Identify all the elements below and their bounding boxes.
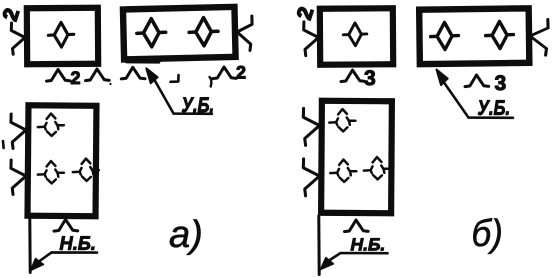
speck [109,83,111,85]
callout arrow to wire (Н.Б.) [321,253,388,270]
fork connector on left of box A1 [11,23,25,54]
callout arrow to box B2 (У.Б.) [437,70,514,118]
dashed diamond top in box A3 [38,114,64,136]
diamond symbol 1 in box A2 [137,19,166,47]
label 2 under box A2 right [237,66,246,79]
smudge comma [210,77,212,87]
box B2 [419,8,529,64]
wire down from box A3 [28,218,31,273]
dashed diamond middle-right in box B3 [364,157,390,179]
fork connector lower on left of box A3 [11,160,26,194]
legs symbol under box A2 left [121,67,145,79]
diamond symbol 2 in box B2 [486,21,514,48]
label 2 under box A1 [71,71,80,84]
fork connector lower on left of box B3 [303,159,319,196]
fork connector upper on left of box A3 [11,114,26,148]
pin count 2 (rotated) at fork A1 [2,7,19,21]
diamond symbol 2 in box A2 [189,18,218,46]
diamond symbol in box B1 [343,23,366,46]
smudge mark [171,75,179,82]
legs symbol left under box A1 [47,70,71,82]
legs symbol under box A2 right [213,67,237,79]
fork connector upper on left of box B3 [303,108,319,145]
legs symbol under box B3 [345,220,369,232]
pin count 2 (rotated) at fork B1 [296,6,313,20]
dashed diamond middle-left in box B3 [330,160,356,182]
label 3 under box B1 [364,70,374,85]
callout arrow to box A2 (У.Б.) [146,68,212,114]
fork connector on right of box A2 [237,16,252,50]
label Н.Б. for box B3 [351,238,384,250]
box A1 [27,8,98,64]
legs symbol under box A3 [54,220,78,232]
diamond symbol in box A1 [48,22,73,47]
dashed diamond middle-left in box A3 [38,161,64,183]
wire down from box B3 [317,216,320,275]
box A2 [123,7,236,63]
label У.Б. for box A2 [182,98,213,113]
variant label б) [473,218,500,254]
legs symbol right under box A1 [86,69,110,81]
dashed diamond middle-right in box A3 [73,159,99,181]
box A3 [28,105,97,216]
callout arrow to wire (Н.Б.) [31,252,98,270]
label У.Б. for box B2 [478,100,509,115]
fork connector on left of box B1 [304,22,319,56]
label Н.Б. for box A3 [60,236,95,249]
diamond symbol 1 in box B2 [431,22,459,49]
stray mark on left edge [2,141,5,148]
dashed diamond top in box B3 [329,109,355,131]
fork connector on right of box B2 [530,19,548,55]
legs symbol under box B1 [341,70,365,82]
box B3 [321,101,392,213]
label 3 under box B2 [495,75,505,90]
legs symbol under box B2 [465,75,489,87]
box B1 [320,8,393,65]
variant label а) [170,219,201,254]
